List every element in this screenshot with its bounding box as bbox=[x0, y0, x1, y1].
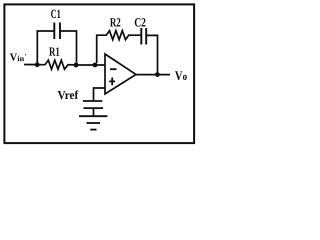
svg-text:Vref: Vref bbox=[57, 88, 79, 102]
svg-text:': ' bbox=[25, 52, 27, 60]
svg-text:o: o bbox=[183, 71, 188, 83]
svg-text:R2: R2 bbox=[110, 16, 121, 30]
svg-text:C2: C2 bbox=[134, 16, 146, 30]
svg-text:R1: R1 bbox=[49, 45, 60, 59]
svg-text:C1: C1 bbox=[51, 7, 61, 21]
